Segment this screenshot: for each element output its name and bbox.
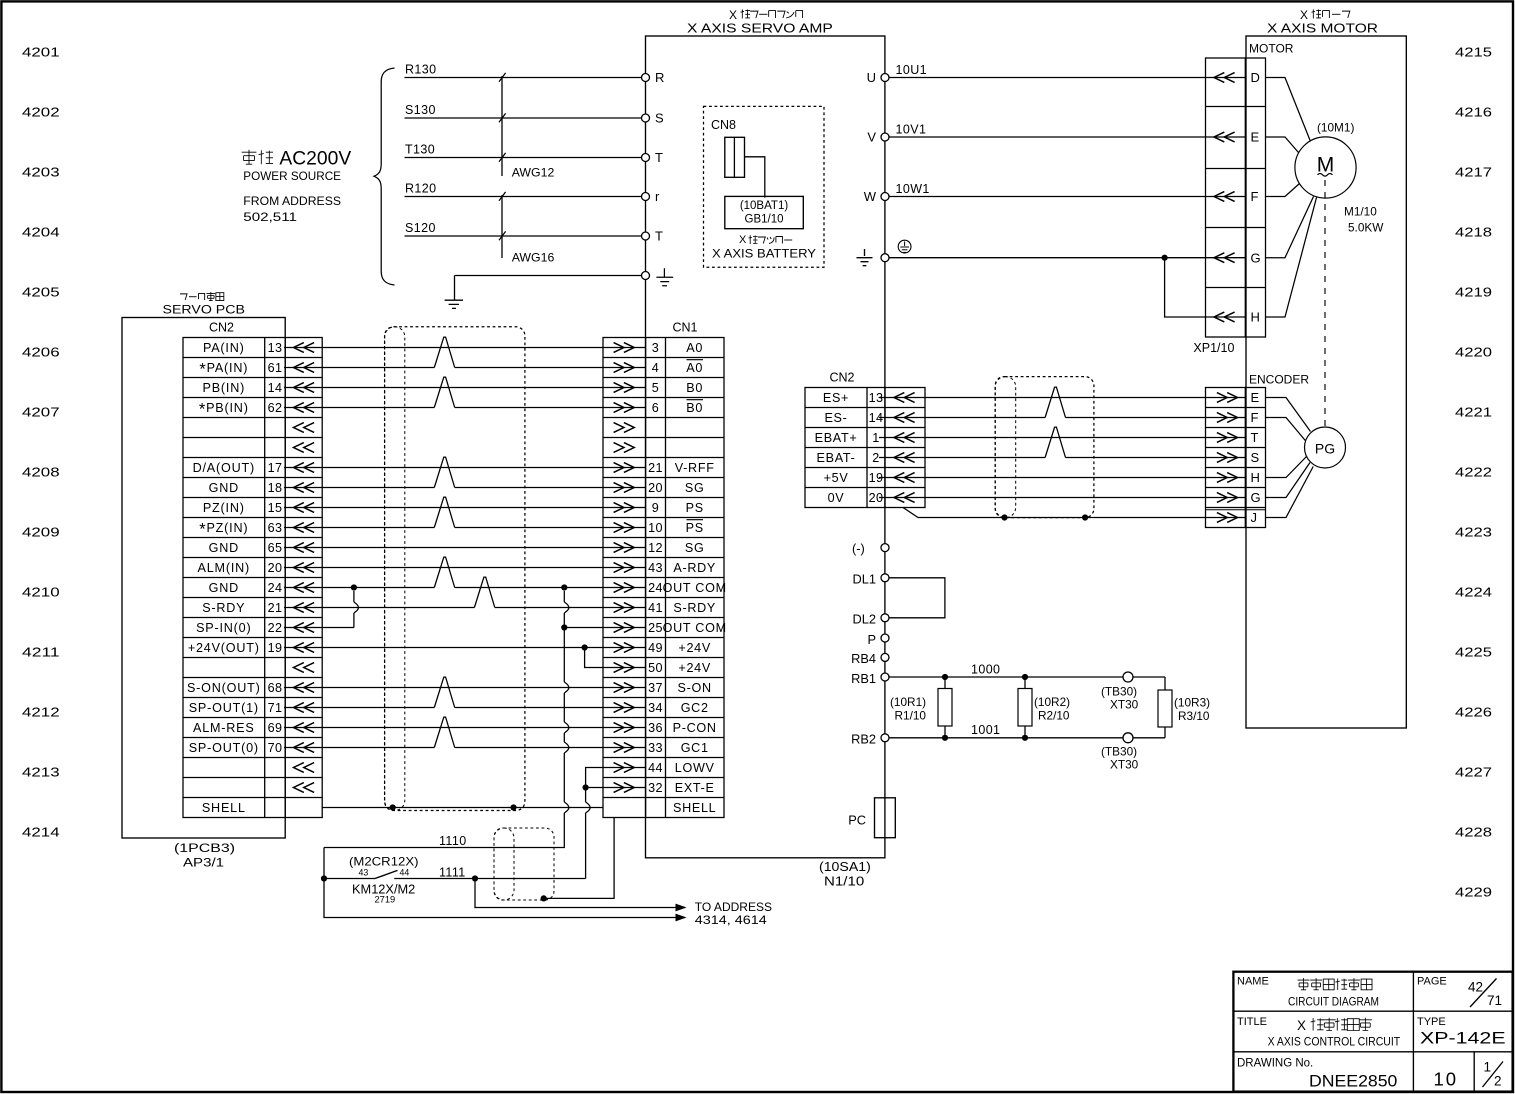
svg-text:F: F xyxy=(1251,410,1259,425)
arrow CN2 EBAT- xyxy=(894,453,915,463)
svg-text:P: P xyxy=(867,632,876,647)
svg-text:PAGE: PAGE xyxy=(1417,976,1447,988)
terminal XT30 upper (TB30) xyxy=(1123,672,1133,682)
svg-text:R3/10: R3/10 xyxy=(1178,709,1210,723)
svg-text:4228: 4228 xyxy=(1455,825,1492,840)
svg-text:33: 33 xyxy=(648,741,663,755)
svg-text:T130: T130 xyxy=(405,143,435,157)
svg-text:+24V: +24V xyxy=(678,661,711,675)
power source brace xyxy=(374,68,395,285)
svg-text:SP-OUT(1): SP-OUT(1) xyxy=(189,701,259,715)
svg-text:0V: 0V xyxy=(828,491,845,505)
junction dot +24V xyxy=(582,644,588,650)
svg-text:SG: SG xyxy=(685,541,705,555)
svg-text:1111: 1111 xyxy=(439,866,466,880)
svg-text:12: 12 xyxy=(648,541,663,555)
svg-text:9: 9 xyxy=(652,501,659,515)
svg-text:2719: 2719 xyxy=(375,894,396,904)
vertical bus OUT COM / wire 1110 xyxy=(563,591,565,602)
wire CN2 row 13 to CN1 xyxy=(284,587,434,589)
svg-text:37: 37 xyxy=(648,681,663,695)
junction dot 1111 xyxy=(472,875,478,881)
svg-text:19: 19 xyxy=(268,641,283,655)
encoder terminal J arrow xyxy=(1217,513,1238,523)
wire ES+ to encoder xyxy=(879,397,1245,399)
svg-text:DNEE2850: DNEE2850 xyxy=(1309,1072,1397,1091)
svg-text:(-): (-) xyxy=(852,541,865,556)
wire motor G to winding xyxy=(1266,197,1314,258)
svg-text:S: S xyxy=(655,111,664,126)
servo amp U1 box xyxy=(646,36,885,858)
jumper DL1-DL2 xyxy=(889,578,945,618)
svg-text:5: 5 xyxy=(652,381,659,395)
CN2 pcb arrows xyxy=(294,343,315,353)
svg-text:PA(IN): PA(IN) xyxy=(203,341,245,355)
svg-text:D: D xyxy=(1251,70,1260,85)
wire R130 xyxy=(405,77,642,79)
cable tick AWG12 xyxy=(501,76,503,176)
motor terminal G arrow xyxy=(1214,253,1235,263)
svg-text:4229: 4229 xyxy=(1455,885,1492,900)
svg-text:J: J xyxy=(1251,510,1258,525)
svg-text:S-RDY: S-RDY xyxy=(673,601,716,615)
wire CN2 row 7 to CN1 xyxy=(284,467,646,469)
svg-text:4207: 4207 xyxy=(22,405,60,420)
ground symbol (power input) xyxy=(445,300,463,308)
wire CN2 row 10 to CN1 xyxy=(284,527,434,529)
svg-text:E: E xyxy=(1251,390,1260,405)
svg-text:PS: PS xyxy=(686,521,704,535)
motor terminal F arrow xyxy=(1214,192,1235,202)
twisted pair mark ES xyxy=(1045,387,1065,417)
wire 1110 vertical to address xyxy=(324,848,685,918)
svg-text:+5V: +5V xyxy=(824,471,849,485)
svg-text:42: 42 xyxy=(1468,980,1483,995)
wire T130 xyxy=(405,157,642,159)
svg-text:T: T xyxy=(655,229,663,244)
svg-text:CN8: CN8 xyxy=(711,118,736,132)
svg-text:S-ON: S-ON xyxy=(678,681,712,695)
svg-text:4209: 4209 xyxy=(22,525,60,540)
junction dot GND24 left xyxy=(351,584,357,590)
svg-text:EBAT-: EBAT- xyxy=(817,451,856,465)
wire CN2 row 20 to CN1 xyxy=(284,727,646,729)
svg-text:CN2: CN2 xyxy=(829,371,854,385)
svg-text:U: U xyxy=(867,70,876,85)
svg-text:R: R xyxy=(655,70,664,85)
svg-text:E: E xyxy=(1251,130,1260,145)
terminal E earth on amp right xyxy=(881,254,889,262)
svg-text:70: 70 xyxy=(268,741,283,755)
svg-text:(10BAT1): (10BAT1) xyxy=(740,200,789,212)
svg-text:4211: 4211 xyxy=(22,645,60,660)
wire CN2 row 1 to CN1 xyxy=(284,347,646,349)
connector CN1 table xyxy=(603,338,727,818)
battery 10BAT1 box xyxy=(725,196,804,228)
terminal P xyxy=(881,634,889,642)
svg-text:SG: SG xyxy=(685,481,705,495)
encoder terminal H arrow xyxy=(1217,473,1238,483)
wire CN2 row 12 to CN1 xyxy=(284,567,646,569)
svg-text:G: G xyxy=(1251,490,1261,505)
wire R120 xyxy=(405,196,642,198)
wire motor H to winding xyxy=(1266,198,1317,318)
svg-text:24: 24 xyxy=(268,581,283,595)
svg-text:D/A(OUT): D/A(OUT) xyxy=(193,461,255,475)
svg-text:18: 18 xyxy=(268,481,283,495)
encoder terminal E arrow xyxy=(1217,393,1238,403)
svg-text:X: X xyxy=(1297,1018,1306,1033)
wire earth to motor H xyxy=(1165,258,1246,317)
svg-text:4205: 4205 xyxy=(22,285,60,300)
wire encoder J to PG xyxy=(1266,467,1314,518)
servo PCB board box 1PCB3 xyxy=(122,318,285,839)
svg-text:4216: 4216 xyxy=(1455,105,1492,120)
terminal U on amp right xyxy=(881,74,889,82)
svg-text:4212: 4212 xyxy=(22,705,60,720)
wire EBAT+ to encoder xyxy=(879,437,1245,439)
svg-text:XT30: XT30 xyxy=(1110,758,1139,772)
svg-text:43: 43 xyxy=(359,868,369,878)
label X axis servo amp (JP) xyxy=(729,8,803,22)
pcb cable shield xyxy=(385,327,525,811)
svg-text:20: 20 xyxy=(648,481,663,495)
jumper GND24 to SP-IN(0) with hop xyxy=(353,591,355,602)
svg-text:4204: 4204 xyxy=(22,225,60,240)
svg-text:25: 25 xyxy=(648,621,663,635)
svg-text:PC: PC xyxy=(848,813,866,828)
svg-text:69: 69 xyxy=(268,721,283,735)
wire EXT-E stub xyxy=(586,787,646,789)
svg-text:X AXIS CONTROL CIRCUIT: X AXIS CONTROL CIRCUIT xyxy=(1268,1037,1401,1049)
svg-text:(10R1): (10R1) xyxy=(890,695,926,709)
motor 10M1 circle xyxy=(1295,137,1356,198)
wire +5V to encoder xyxy=(879,477,1245,479)
wire ES- to encoder xyxy=(879,417,1045,419)
svg-text:PZ(IN): PZ(IN) xyxy=(203,501,245,515)
svg-text:AP3/1: AP3/1 xyxy=(183,856,224,870)
svg-text:4224: 4224 xyxy=(1455,585,1492,600)
wire S130 xyxy=(405,117,642,119)
svg-text:T: T xyxy=(655,150,663,165)
wire SHELL row xyxy=(322,807,603,809)
svg-text:X AXIS MOTOR: X AXIS MOTOR xyxy=(1267,21,1378,36)
svg-text:4222: 4222 xyxy=(1455,465,1492,480)
svg-text:R2/10: R2/10 xyxy=(1038,709,1070,723)
svg-text:AWG16: AWG16 xyxy=(512,251,555,265)
svg-text:CN1: CN1 xyxy=(672,321,697,335)
svg-text:4201: 4201 xyxy=(22,45,60,60)
svg-text:(1PCB3): (1PCB3) xyxy=(174,841,235,855)
svg-text:PS: PS xyxy=(686,501,704,515)
svg-text:S: S xyxy=(1251,450,1260,465)
circled earth symbol xyxy=(898,240,911,253)
wire CN2 row 14 to CN1 xyxy=(284,607,474,609)
svg-text:ENCODER: ENCODER xyxy=(1249,373,1309,387)
svg-text:r: r xyxy=(655,189,660,204)
terminal RB2 xyxy=(881,734,889,742)
wire encoder G to PG xyxy=(1266,463,1311,498)
resistor R2/10 (10R2) xyxy=(1022,674,1028,680)
svg-text:SP-IN(0): SP-IN(0) xyxy=(196,621,251,635)
wire CN2 row 21 to CN1 xyxy=(284,747,434,749)
svg-text:RB4: RB4 xyxy=(851,651,876,666)
label power source (JP+EN) xyxy=(242,149,352,225)
junction dot OUT COM right xyxy=(561,584,567,590)
wire encoder F to PG xyxy=(1266,418,1306,441)
wire earth amp to motor G xyxy=(889,257,1245,259)
svg-text:22: 22 xyxy=(268,621,283,635)
svg-text:(10SA1): (10SA1) xyxy=(819,859,871,874)
wire encoder E to PG xyxy=(1266,398,1311,432)
svg-text:PG: PG xyxy=(1315,441,1335,457)
svg-text:(TB30): (TB30) xyxy=(1101,745,1137,759)
resistor R3/10 (10R3) xyxy=(1164,677,1166,738)
svg-text:4217: 4217 xyxy=(1455,165,1492,180)
svg-text:(10R2): (10R2) xyxy=(1034,695,1070,709)
arrow CN2 +5V xyxy=(894,473,915,483)
svg-text:X AXIS BATTERY: X AXIS BATTERY xyxy=(712,247,816,261)
wire CN2 row 3 to CN1 xyxy=(284,387,646,389)
svg-text:GB1/10: GB1/10 xyxy=(745,214,784,226)
svg-text:1001: 1001 xyxy=(971,723,1000,737)
wire 1111 to address xyxy=(475,879,685,908)
svg-text:4218: 4218 xyxy=(1455,225,1492,240)
PG encoder circle xyxy=(1305,427,1346,468)
wire CN2 row 16 to CN1 xyxy=(284,647,646,649)
wire 0V to encoder xyxy=(879,497,1245,499)
svg-text:RB1: RB1 xyxy=(851,671,876,686)
junction dots on shield wire xyxy=(1001,514,1007,520)
terminal RB1 xyxy=(881,673,889,681)
cable shield 1110/1111 xyxy=(494,828,554,900)
svg-text:SERVO PCB: SERVO PCB xyxy=(163,303,245,317)
wire EBAT- to encoder xyxy=(879,457,1045,459)
svg-text:ALM(IN): ALM(IN) xyxy=(198,561,250,575)
svg-text:34: 34 xyxy=(648,701,663,715)
svg-text:61: 61 xyxy=(268,361,283,375)
svg-text:10: 10 xyxy=(648,521,663,535)
svg-text:6: 6 xyxy=(652,401,659,415)
svg-text:NAME: NAME xyxy=(1237,976,1269,988)
svg-text:44: 44 xyxy=(648,761,663,775)
svg-text:DRAWING No.: DRAWING No. xyxy=(1237,1057,1313,1069)
svg-text:4203: 4203 xyxy=(22,165,60,180)
ground wire from amp E terminal xyxy=(455,275,642,277)
svg-text:4210: 4210 xyxy=(22,585,60,600)
svg-text:GND: GND xyxy=(209,481,239,495)
svg-text:4223: 4223 xyxy=(1455,525,1492,540)
svg-text:65: 65 xyxy=(268,541,283,555)
svg-text:+24V(OUT): +24V(OUT) xyxy=(188,641,260,655)
relay contact KM12X/M2 43-44 xyxy=(324,878,586,880)
svg-text:EBAT+: EBAT+ xyxy=(815,431,858,445)
svg-text:R130: R130 xyxy=(405,63,436,77)
arrow CN2 ES- xyxy=(894,413,915,423)
svg-text:3: 3 xyxy=(652,341,659,355)
svg-text:5.0KW: 5.0KW xyxy=(1348,221,1384,235)
svg-text:A0: A0 xyxy=(686,341,703,355)
svg-text:A-RDY: A-RDY xyxy=(673,561,716,575)
svg-text:(10R3): (10R3) xyxy=(1174,696,1210,710)
svg-text:13: 13 xyxy=(268,341,283,355)
svg-text:(TB30): (TB30) xyxy=(1101,685,1137,699)
svg-text:50: 50 xyxy=(648,661,663,675)
svg-text:(M2CR12X): (M2CR12X) xyxy=(349,856,419,869)
svg-text:LOWV: LOWV xyxy=(675,761,715,775)
twisted pair marks CN1 cable xyxy=(434,337,454,367)
svg-text:1: 1 xyxy=(872,431,879,445)
wire motor D to winding xyxy=(1266,78,1311,142)
svg-text:XT30: XT30 xyxy=(1110,698,1139,712)
svg-text:502,511: 502,511 xyxy=(243,210,297,224)
shield drain wire to encoder J xyxy=(903,508,1245,518)
resistor R1/10 (10R1) xyxy=(942,674,948,680)
svg-text:S120: S120 xyxy=(405,221,436,235)
svg-text:ES-: ES- xyxy=(824,411,847,425)
svg-text:+24V: +24V xyxy=(678,641,711,655)
svg-text:SHELL: SHELL xyxy=(202,801,246,815)
svg-text:1110: 1110 xyxy=(439,834,467,848)
svg-text:4202: 4202 xyxy=(22,105,60,120)
svg-text:2: 2 xyxy=(1494,1074,1502,1089)
svg-text:4: 4 xyxy=(652,361,659,375)
encoder terminal T arrow xyxy=(1217,433,1238,443)
terminal RB4 xyxy=(881,653,889,661)
svg-text:X: X xyxy=(739,234,747,246)
motor terminal H arrow xyxy=(1214,312,1235,322)
svg-text:GND: GND xyxy=(209,541,239,555)
svg-text:DL2: DL2 xyxy=(853,612,876,627)
svg-text:ALM-RES: ALM-RES xyxy=(193,721,255,735)
svg-text:36: 36 xyxy=(648,721,663,735)
wire SP-IN(0) stub xyxy=(284,627,354,629)
wire S120 xyxy=(405,235,642,237)
svg-text:B0: B0 xyxy=(686,401,703,415)
svg-text:(10M1): (10M1) xyxy=(1317,121,1354,135)
label X axis motor (JP) xyxy=(1300,8,1350,22)
shield drain to CN1 SHELL xyxy=(544,818,614,899)
CN8 battery dotted enclosure xyxy=(704,106,825,267)
arrow CN2 0V xyxy=(894,493,915,503)
svg-text:S130: S130 xyxy=(405,103,436,117)
cable tick AWG16 xyxy=(501,195,503,258)
CN1 arrows xyxy=(614,343,635,353)
wire OUT COM bus to pin 25 xyxy=(564,627,645,629)
svg-text:4206: 4206 xyxy=(22,345,60,360)
svg-text:X AXIS SERVO AMP: X AXIS SERVO AMP xyxy=(687,21,833,36)
svg-text:4213: 4213 xyxy=(22,765,60,780)
svg-text:62: 62 xyxy=(268,401,283,415)
svg-text:F: F xyxy=(1251,189,1259,204)
svg-text:B0: B0 xyxy=(686,381,703,395)
svg-text:71: 71 xyxy=(1487,993,1502,1008)
svg-text:44: 44 xyxy=(400,868,410,878)
svg-text:PB(IN): PB(IN) xyxy=(203,381,246,395)
svg-text:10U1: 10U1 xyxy=(896,63,927,77)
wire 10V1 amp to motor V xyxy=(889,136,1245,138)
terminal T on amp xyxy=(642,232,650,240)
svg-text:DL1: DL1 xyxy=(853,571,876,586)
encoder terminal S arrow xyxy=(1217,453,1238,463)
fuse PC xyxy=(875,798,896,838)
svg-text:T: T xyxy=(1251,430,1259,445)
motor M box xyxy=(1246,36,1406,728)
svg-text:4314, 4614: 4314, 4614 xyxy=(695,913,767,927)
wire motor E to winding xyxy=(1266,137,1299,153)
svg-text:RB2: RB2 xyxy=(851,732,876,747)
svg-text:41: 41 xyxy=(648,601,663,615)
wire encoder H to PG xyxy=(1266,457,1307,478)
svg-text:17: 17 xyxy=(268,461,283,475)
svg-text:TITLE: TITLE xyxy=(1237,1016,1267,1028)
svg-text:GC2: GC2 xyxy=(681,701,709,715)
terminal XT30 lower (TB30) xyxy=(1123,733,1133,743)
junction dot contact branch xyxy=(321,875,327,881)
label servo PCB (JP) xyxy=(180,294,187,300)
svg-text:TYPE: TYPE xyxy=(1417,1016,1446,1028)
svg-text:15: 15 xyxy=(268,501,283,515)
svg-text:SP-OUT(0): SP-OUT(0) xyxy=(189,741,259,755)
svg-text:EXT-E: EXT-E xyxy=(675,781,715,795)
svg-text:S-ON(OUT): S-ON(OUT) xyxy=(187,681,261,695)
svg-text:4208: 4208 xyxy=(22,465,60,480)
svg-text:10: 10 xyxy=(1434,1069,1459,1090)
svg-text:14: 14 xyxy=(268,381,283,395)
encoder terminal F arrow xyxy=(1217,413,1238,423)
svg-text:H: H xyxy=(1251,470,1260,485)
wire CN8 to battery xyxy=(745,157,765,198)
terminal V on amp right xyxy=(881,133,889,141)
title block xyxy=(1233,972,1512,1092)
svg-text:N1/10: N1/10 xyxy=(824,874,864,889)
terminal DL1 xyxy=(881,574,889,582)
encoder cable shield xyxy=(995,377,1094,518)
svg-text:24: 24 xyxy=(648,581,663,595)
svg-text:CIRCUIT DIAGRAM: CIRCUIT DIAGRAM xyxy=(1288,995,1379,1009)
wire CN2 row 9 to CN1 xyxy=(284,507,646,509)
terminal S on amp xyxy=(642,114,650,122)
svg-text:10W1: 10W1 xyxy=(896,182,930,196)
svg-text:43: 43 xyxy=(648,561,663,575)
svg-text:1000: 1000 xyxy=(971,663,1000,677)
wire CN2 row 18 to CN1 xyxy=(284,687,646,689)
svg-text:4227: 4227 xyxy=(1455,765,1492,780)
junction dots on pcb shield xyxy=(390,804,396,810)
svg-text:4221: 4221 xyxy=(1455,405,1492,420)
svg-text:XP-142E: XP-142E xyxy=(1420,1029,1506,1048)
svg-text:10V1: 10V1 xyxy=(896,123,927,137)
encoder terminal strip xyxy=(1206,388,1246,528)
svg-text:49: 49 xyxy=(648,641,663,655)
svg-text:AC200V: AC200V xyxy=(279,149,351,170)
svg-text:AWG12: AWG12 xyxy=(512,166,555,180)
svg-text:G: G xyxy=(1251,250,1261,265)
svg-text:M1/10: M1/10 xyxy=(1344,205,1377,219)
wire CN2 row 2 to CN1 xyxy=(284,367,434,369)
junction dot OUT COM 25 xyxy=(561,624,567,630)
svg-text:V: V xyxy=(867,130,876,145)
terminal W on amp right xyxy=(881,193,889,201)
svg-text:ES+: ES+ xyxy=(823,391,849,405)
wire motor F to winding xyxy=(1266,184,1300,197)
wire CN2 row 4 to CN1 xyxy=(284,407,434,409)
svg-text:2: 2 xyxy=(872,451,879,465)
svg-text:4215: 4215 xyxy=(1455,45,1492,60)
terminal R on amp xyxy=(642,74,650,82)
terminal r on amp xyxy=(642,193,650,201)
svg-text:GND: GND xyxy=(209,581,239,595)
